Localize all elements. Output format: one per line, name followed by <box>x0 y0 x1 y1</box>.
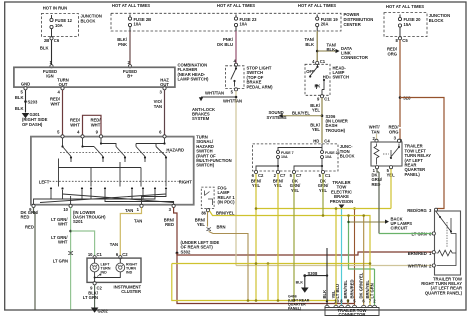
svg-text:PROVISION: PROVISION <box>330 199 353 204</box>
wire LT GRN down to connector <box>374 269 376 305</box>
svg-text:SWITCH): SWITCH) <box>196 163 215 168</box>
svg-text:10A: 10A <box>240 22 248 27</box>
wire YEL down to trailer connector <box>335 209 337 306</box>
svg-text:TAN: TAN <box>371 129 379 134</box>
svg-text:RIGHT: RIGHT <box>179 179 192 184</box>
svg-text:BLOCK: BLOCK <box>340 154 355 159</box>
wire BLK <box>25 90 27 113</box>
svg-text:BRN/RED: BRN/RED <box>350 279 355 298</box>
svg-text:GND: GND <box>21 81 30 86</box>
node splice to cluster <box>69 230 72 233</box>
svg-text:OUT: OUT <box>59 82 68 87</box>
wire LT BLU down to trailer connector <box>341 209 343 305</box>
svg-text:HAZARD: HAZARD <box>166 148 184 153</box>
svg-text:PNK: PNK <box>118 42 127 47</box>
switch interior wiring <box>34 138 174 205</box>
svg-text:PK: PK <box>315 84 321 89</box>
svg-text:HOT AT ALL TIMES: HOT AT ALL TIMES <box>217 3 255 8</box>
svg-text:86: 86 <box>201 210 206 215</box>
svg-text:LAMP SWITCH): LAMP SWITCH) <box>178 77 209 82</box>
wire LT GRN to right relay pin 6 <box>379 233 432 235</box>
svg-text:CIRCUIT: CIRCUIT <box>391 226 408 231</box>
svg-text:RED: RED <box>25 224 34 229</box>
contact <box>436 212 456 254</box>
rotated wire labels at connector <box>322 272 375 298</box>
svg-text:S308: S308 <box>308 271 318 276</box>
wire BLK/LT GRN to ground <box>94 285 96 308</box>
wire BRN/YEL jb pin 2C7 <box>277 174 279 301</box>
svg-text:CLUSTER: CLUSTER <box>121 289 141 294</box>
svg-text:WHT/TAN: WHT/TAN <box>223 98 242 103</box>
svg-text:LT GRN: LT GRN <box>53 258 68 263</box>
right turn indicator lamp <box>119 259 121 263</box>
svg-text:SWITCH: SWITCH <box>333 75 350 80</box>
wire TAN from pin 1 to cluster <box>120 208 141 256</box>
wire BRN/YEL short leg <box>267 264 269 301</box>
wire TAN/BLK down to headlamp switch <box>316 31 318 62</box>
svg-text:20A: 20A <box>321 22 329 27</box>
fuse 7 <box>277 151 280 154</box>
svg-text:C4: C4 <box>324 139 330 144</box>
svg-text:BLK: BLK <box>305 42 314 47</box>
ground G202 <box>91 308 99 313</box>
svg-text:WHT: WHT <box>50 101 60 106</box>
svg-text:TAN: TAN <box>134 219 142 224</box>
svg-text:(IN PDC): (IN PDC) <box>218 200 236 205</box>
jb bottom pins <box>254 170 257 173</box>
node branch to ABS <box>235 96 238 99</box>
jb internal wiring <box>256 144 322 171</box>
svg-text:PEDAL ARM): PEDAL ARM) <box>247 84 274 89</box>
svg-text:BLK/YEL: BLK/YEL <box>292 111 310 116</box>
svg-text:YEL: YEL <box>291 188 300 193</box>
svg-text:LEFT: LEFT <box>39 179 50 184</box>
fuse 23 <box>235 15 237 32</box>
wire RED/WHT turn out <box>62 90 64 135</box>
svg-text:HOT AT ALL TIMES: HOT AT ALL TIMES <box>386 4 424 9</box>
wire BRN/RED to right relay pin 1 <box>177 252 432 255</box>
fuse 19 <box>316 15 318 32</box>
svg-text:S203: S203 <box>28 99 38 104</box>
wire BRN/YEL from fog relay right <box>210 211 371 305</box>
svg-text:CENTER: CENTER <box>344 22 361 27</box>
svg-text:TROUGH): TROUGH) <box>326 128 346 133</box>
flasher bottom pins <box>24 87 27 90</box>
svg-text:TAN: TAN <box>154 104 162 109</box>
connector C5 <box>398 37 401 40</box>
svg-text:DK BLU: DK BLU <box>217 42 233 47</box>
node S branch to data link connector <box>316 50 319 53</box>
power distribution center (dashed) <box>111 13 341 31</box>
svg-text:WHT/TAN: WHT/TAN <box>408 263 427 268</box>
svg-text:BLOCK: BLOCK <box>81 18 96 23</box>
ground G406 <box>301 288 309 293</box>
svg-text:BLK: BLK <box>322 290 327 299</box>
wire LT GRN backup branch down <box>349 222 375 269</box>
svg-text:C2: C2 <box>258 173 264 178</box>
svg-text:BLK: BLK <box>296 281 304 285</box>
wire BLK/YEL branch to sound systems <box>283 115 323 117</box>
svg-text:IGN: IGN <box>46 73 53 78</box>
fuse 12 <box>51 15 53 37</box>
svg-text:WHT: WHT <box>70 123 80 128</box>
coil <box>437 250 456 256</box>
svg-text:LT BLU: LT BLU <box>335 284 340 299</box>
svg-text:IND: IND <box>101 270 108 274</box>
svg-text:WHT/TAN: WHT/TAN <box>205 90 224 95</box>
connector C6 <box>50 37 53 40</box>
svg-text:YEL: YEL <box>312 127 321 132</box>
node S308 <box>303 274 306 277</box>
svg-text:LT GRN: LT GRN <box>370 283 375 298</box>
wire YEL from relay pin5 <box>390 169 392 209</box>
svg-text:10: 10 <box>88 252 93 257</box>
svg-text:10: 10 <box>334 299 339 304</box>
svg-text:C7: C7 <box>280 173 286 178</box>
svg-text:TAN: TAN <box>125 208 133 213</box>
cluster bottom pin <box>93 282 96 285</box>
wire YEL horizontal from left relay <box>256 208 391 210</box>
back up lamps circuit <box>349 216 386 223</box>
contact <box>390 144 399 159</box>
node S302 <box>176 252 179 255</box>
svg-text:TAN: TAN <box>110 242 118 247</box>
left turn indicator lamp <box>94 259 96 263</box>
fuse 23 jb <box>321 151 324 154</box>
svg-text:IND: IND <box>126 270 133 274</box>
svg-text:BRN/RED: BRN/RED <box>408 251 427 256</box>
inline connector on LT GRN <box>68 251 73 255</box>
wire BLK fuse12 to flasher <box>51 40 53 65</box>
svg-text:HD: HD <box>313 139 319 144</box>
junction block 2 (dashed) <box>384 13 427 37</box>
svg-text:10A: 10A <box>134 22 142 27</box>
wire DK GRN/RED from relay pin1 <box>377 169 379 172</box>
wire BRN/RED vertical to connector <box>354 209 356 306</box>
svg-text:BLK: BLK <box>15 106 24 111</box>
svg-text:LT GRN: LT GRN <box>83 295 98 300</box>
svg-text:C5: C5 <box>402 38 408 43</box>
wire DK GRN/RED from relay pin1 down <box>378 172 380 234</box>
svg-text:CONNECTOR: CONNECTOR <box>341 55 368 60</box>
svg-text:SYSTEMS: SYSTEMS <box>267 115 287 120</box>
svg-text:G202: G202 <box>98 308 109 313</box>
wire BRN stub to connector <box>347 301 349 306</box>
svg-text:OUT: OUT <box>160 82 169 87</box>
stop light switch box <box>226 66 244 89</box>
svg-text:YEL: YEL <box>197 222 206 227</box>
ground G301 <box>22 113 30 118</box>
fuse 2B <box>129 15 131 32</box>
svg-text:S302: S302 <box>181 249 191 254</box>
svg-text:10A: 10A <box>281 155 288 159</box>
svg-text:DK GRN/YEL: DK GRN/YEL <box>359 272 364 298</box>
wire WHT/TAN stub to pin 2 <box>376 134 378 140</box>
svg-text:HOT AT ALL TIMES: HOT AT ALL TIMES <box>298 3 336 8</box>
wire WHT/TAN down from stop light switch <box>235 91 237 266</box>
svg-text:WHT: WHT <box>91 123 101 128</box>
node S206 <box>321 114 324 117</box>
svg-text:RED/ORG: RED/ORG <box>407 208 427 213</box>
svg-text:B+: B+ <box>127 73 133 78</box>
wire RED/ORG main <box>399 40 401 127</box>
svg-text:BLK: BLK <box>15 95 24 100</box>
switch bottom pins <box>32 204 35 207</box>
svg-text:HD: HD <box>323 75 329 80</box>
relay left pins <box>432 232 435 235</box>
svg-text:C1: C1 <box>320 59 326 64</box>
wire BRN/RED down and right to trailer connector <box>177 253 355 304</box>
svg-text:BRN/YEL: BRN/YEL <box>343 280 348 299</box>
svg-text:C1: C1 <box>97 252 103 257</box>
fuse 20 <box>399 15 401 37</box>
wire RED/WHT jumper pins 4-9 <box>83 115 102 134</box>
relay box <box>371 142 402 166</box>
headlamp switch lever <box>310 65 324 95</box>
cluster internal wiring <box>95 272 121 282</box>
svg-text:10: 10 <box>63 207 68 212</box>
svg-text:10A: 10A <box>55 23 63 28</box>
svg-text:HOT IN RUN: HOT IN RUN <box>43 6 67 11</box>
wire BRN/RED from pin 3 <box>174 208 177 254</box>
svg-text:C1: C1 <box>325 173 331 178</box>
wire BRN/YEL horizontal mid <box>172 263 370 265</box>
turn signal hazard switch box <box>31 137 194 205</box>
svg-text:RED: RED <box>165 222 174 227</box>
node S203 <box>24 100 27 103</box>
wire BRN to bottom <box>209 232 248 301</box>
wire BLK/YEL headlamp to junction block <box>321 98 323 143</box>
svg-text:PANEL): PANEL) <box>405 172 421 177</box>
svg-text:C1: C1 <box>324 97 330 102</box>
wire DK GRN/YEL to trailer connector <box>363 216 365 306</box>
svg-text:10A: 10A <box>325 155 332 159</box>
svg-text:BRN: BRN <box>217 224 226 229</box>
svg-text:BLK: BLK <box>327 47 336 52</box>
svg-text:BLOCK: BLOCK <box>429 18 444 23</box>
wire VIO/TAN haz out <box>164 90 166 135</box>
svg-text:C7: C7 <box>296 173 302 178</box>
svg-text:2B: 2B <box>44 38 49 43</box>
svg-text:ORG: ORG <box>387 51 397 56</box>
svg-text:OF DASH): OF DASH) <box>22 122 43 127</box>
svg-text:S201: S201 <box>73 219 83 224</box>
svg-text:PANEL): PANEL) <box>288 307 302 311</box>
svg-text:C6: C6 <box>54 38 60 43</box>
wire DK GRN/RED from pin 9 <box>34 208 36 310</box>
wire LT GRN/WHT from pin 10 <box>70 208 72 310</box>
wire RED/ORG branch to right relay <box>400 98 444 209</box>
svg-text:BLK: BLK <box>40 46 49 51</box>
svg-text:C2: C2 <box>122 252 128 257</box>
wire PNK/DK BLU to stop light switch <box>235 31 237 64</box>
wire BRN/YEL left leg down <box>172 264 336 306</box>
node S28 <box>399 96 402 99</box>
wire WHT/TAN to right relay pin 2 <box>236 265 432 267</box>
svg-text:YEL: YEL <box>312 108 321 113</box>
svg-text:WHT: WHT <box>58 240 68 245</box>
wire BLK/PNK fuse2B to flasher <box>129 31 131 65</box>
inline connector <box>207 228 211 231</box>
junction block 1 (dashed) <box>41 14 78 37</box>
wire DK GRN/YEL jb pin 5C7 down <box>293 174 295 301</box>
svg-text:QUARTER PANEL): QUARTER PANEL) <box>425 290 463 295</box>
wire DK GRN/YEL jb pin 5C1 <box>322 174 324 216</box>
svg-text:ORG: ORG <box>389 129 399 134</box>
svg-text:BRN/YEL: BRN/YEL <box>216 211 235 216</box>
wire BRN/YEL jb pin 6C2 <box>255 174 257 301</box>
relay bottom pins <box>375 166 378 169</box>
svg-text:CONNECTOR: CONNECTOR <box>339 312 366 316</box>
combination flasher box <box>14 67 175 87</box>
svg-text:HOT AT ALL TIMES: HOT AT ALL TIMES <box>112 3 150 8</box>
svg-text:15A: 15A <box>404 22 412 27</box>
svg-text:RED: RED <box>21 215 30 220</box>
coil <box>374 144 379 165</box>
svg-text:WHT: WHT <box>58 222 68 227</box>
wire BRN below fog relay <box>207 212 209 227</box>
switch lever <box>231 67 236 87</box>
svg-text:SYSTEM: SYSTEM <box>192 116 210 121</box>
